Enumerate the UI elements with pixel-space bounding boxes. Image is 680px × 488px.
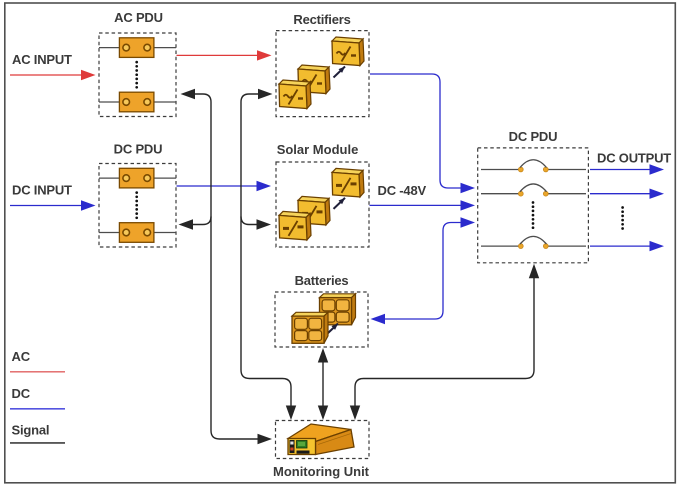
- svg-text:Solar Module: Solar Module: [277, 142, 359, 157]
- svg-text:AC INPUT: AC INPUT: [12, 52, 72, 67]
- svg-text:DC -48V: DC -48V: [378, 183, 427, 198]
- svg-text:Rectifiers: Rectifiers: [293, 12, 350, 27]
- svg-text:DC PDU: DC PDU: [509, 129, 558, 144]
- svg-text:DC PDU: DC PDU: [114, 142, 163, 157]
- svg-text:Batteries: Batteries: [295, 273, 349, 288]
- svg-text:DC INPUT: DC INPUT: [12, 183, 72, 198]
- svg-text:AC PDU: AC PDU: [114, 10, 163, 25]
- svg-text:Signal: Signal: [12, 423, 50, 438]
- svg-text:Monitoring Unit: Monitoring Unit: [273, 464, 370, 479]
- svg-text:DC: DC: [12, 386, 31, 401]
- svg-text:AC: AC: [12, 349, 31, 364]
- svg-text:DC OUTPUT: DC OUTPUT: [597, 151, 671, 166]
